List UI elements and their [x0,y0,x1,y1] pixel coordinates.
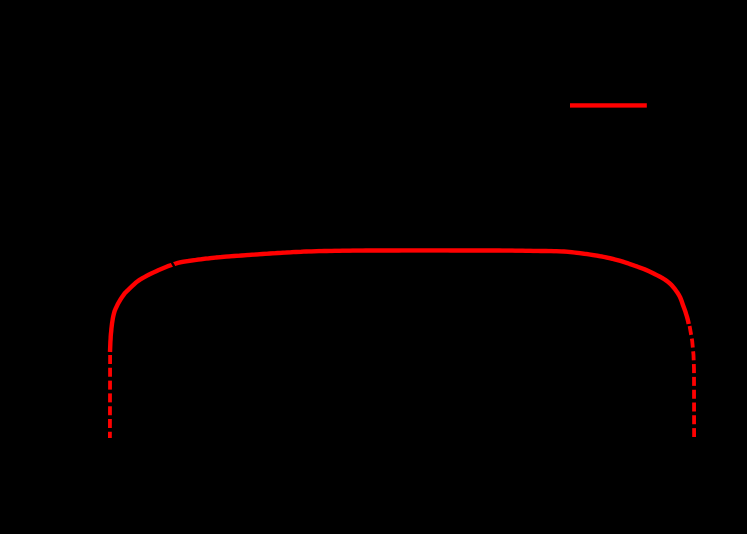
asymptote dashed left [108,355,112,438]
asymptote dashed right [690,326,695,437]
legend sample line [570,103,647,107]
annotation leader notch crossing curve [170,258,176,269]
curve main (red band-pass style response) [110,250,689,352]
